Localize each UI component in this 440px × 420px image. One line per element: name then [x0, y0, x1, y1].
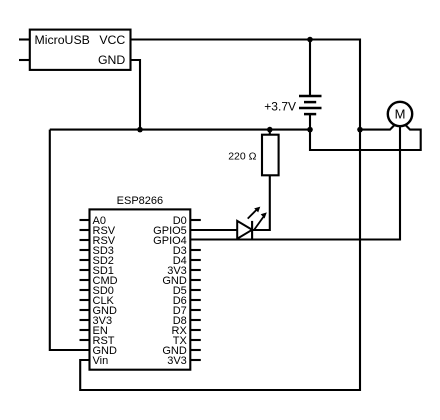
svg-text:GND: GND [98, 53, 125, 67]
wire battery bottom lead down, right along y150, up to motor right terminal [310, 113, 421, 150]
wire VCC branch to motor left terminal [360, 125, 395, 130]
wire stub NC pin 2 [19, 59, 30, 61]
right pin stubs [190, 220, 201, 360]
svg-text:+3.7V: +3.7V [264, 99, 296, 113]
svg-text:220 Ω: 220 Ω [228, 150, 256, 162]
LED arrow 1 [248, 207, 261, 219]
svg-text:3V3: 3V3 [167, 355, 187, 367]
LED arrow 2 [254, 212, 267, 230]
LED D1 [237, 221, 252, 239]
wire VCC net: from MicroUSB VCC right, down right side, along bottom, up to ESP Vin [80, 40, 360, 391]
wire motor center lead down and left to ESP GPIO4 [190, 126, 400, 240]
right pin labels [153, 215, 187, 367]
left pin labels [93, 215, 118, 367]
svg-text:ESP8266: ESP8266 [117, 195, 163, 207]
left pin stubs rows 1-13 [80, 220, 90, 340]
ESP8266 U1 [90, 209, 191, 369]
junction node GND at resistor [267, 127, 273, 133]
wire battery top lead [309, 40, 311, 97]
svg-text:Vin: Vin [93, 355, 109, 367]
svg-text:M: M [395, 107, 406, 122]
wire MicroUSB GND right then down to GND net [131, 60, 141, 130]
wire stub NC pin 1 [19, 38, 30, 40]
resistor R1 220 ohm [262, 135, 279, 176]
junction node VCC/battery top [307, 37, 313, 43]
wire resistor bottom lead down and left to LED cathode [252, 175, 270, 230]
wire GND net horizontal [50, 129, 310, 131]
wire resistor top lead [269, 130, 271, 135]
svg-text:MicroUSB: MicroUSB [35, 33, 90, 47]
wire GND net left side down to ESP GND pin [50, 130, 90, 350]
MicroUSB J1 [30, 30, 131, 70]
battery BT1 +3.7V [299, 96, 322, 114]
wire ESP GPIO5 to LED anode [190, 229, 237, 231]
junction node GND at usb drop [137, 127, 143, 133]
svg-text:VCC: VCC [99, 33, 125, 47]
junction node GND at battery bottom [307, 127, 313, 133]
motor M1 [388, 102, 412, 126]
junction node VCC at motor branch [357, 127, 363, 133]
